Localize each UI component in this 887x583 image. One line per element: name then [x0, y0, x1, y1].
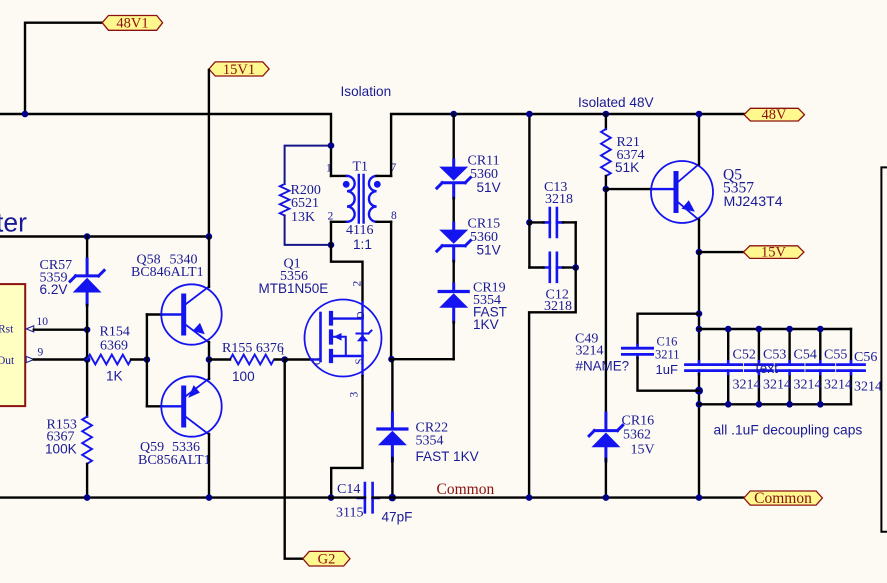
text Isolation — [341, 84, 392, 99]
node bus at CR11 — [450, 111, 457, 118]
zener CR11 — [437, 160, 471, 198]
resistor R154 — [87, 355, 147, 365]
capacitor C12 — [529, 253, 575, 282]
text CR16 labels — [622, 414, 655, 458]
wire CR chain vertical — [453, 114, 455, 162]
text R200 labels — [291, 183, 321, 225]
svg-text:6521: 6521 — [291, 196, 319, 211]
node CR22 at common — [389, 494, 397, 502]
text R153 labels — [45, 418, 77, 457]
svg-text:C14: C14 — [337, 482, 360, 497]
transistor Q59 — [147, 360, 222, 498]
svg-text:R154: R154 — [100, 325, 130, 340]
node C52 bottom — [725, 401, 732, 408]
pin Rst arrow — [26, 326, 34, 332]
MOSFET Q1 — [305, 300, 382, 377]
svg-text:C56: C56 — [854, 350, 877, 365]
wire 15V port stub — [699, 251, 744, 253]
node C49 top junction — [696, 310, 703, 317]
node Q5 emitter 15V junction — [696, 249, 703, 256]
wire C12 to common with jog — [529, 268, 576, 498]
svg-text:9: 9 — [38, 347, 44, 359]
port 48V1 — [102, 16, 162, 32]
svg-text:51V: 51V — [477, 180, 501, 195]
node R200 top junction — [328, 142, 335, 149]
svg-text:48V: 48V — [762, 107, 788, 123]
transistor Q5 — [651, 114, 713, 252]
text CR22 labels — [416, 421, 479, 465]
svg-text:G: G — [313, 357, 324, 365]
svg-text:3211: 3211 — [655, 348, 680, 362]
capacitor C53 — [745, 329, 772, 404]
wire pin10 — [34, 329, 87, 331]
svg-text:15V: 15V — [631, 443, 655, 458]
svg-text:Rst: Rst — [0, 324, 14, 336]
node bus at R21 — [603, 111, 610, 118]
text C52 labels — [733, 347, 761, 392]
text C16 labels — [655, 334, 680, 377]
node C55 bottom — [817, 401, 824, 408]
svg-text:Isolated 48V: Isolated 48V — [578, 95, 654, 110]
node C12 right junction — [572, 264, 579, 271]
node decoupling top rail junction — [696, 326, 703, 333]
svg-text:4116: 4116 — [346, 223, 373, 238]
svg-text:100K: 100K — [45, 442, 77, 457]
text C49 labels — [575, 332, 629, 374]
node CR16 at common — [603, 494, 610, 501]
pin Out arrow — [26, 356, 34, 362]
svg-text:MJ243T4: MJ243T4 — [724, 194, 783, 210]
diode CR19 — [439, 284, 468, 322]
node pin8 CR22 junction — [388, 356, 395, 363]
node emitter junction R155 — [206, 356, 213, 363]
node R21 bottom junction — [603, 186, 610, 193]
wire gate — [285, 358, 312, 360]
wire 15V1 drop — [208, 70, 210, 237]
svg-text:3214: 3214 — [794, 377, 822, 392]
text Q58 labels — [131, 252, 204, 280]
node C53 top — [756, 326, 763, 333]
node 48V1 junction — [22, 111, 29, 118]
svg-text:1:1: 1:1 — [353, 237, 372, 252]
pin Rst label — [0, 324, 14, 336]
svg-text:1: 1 — [280, 347, 285, 357]
node C54 top — [786, 326, 793, 333]
wire C13 to C12 right — [575, 222, 577, 267]
text R154 labels — [100, 325, 130, 384]
svg-text:3214: 3214 — [576, 344, 604, 359]
capacitor C54 — [776, 329, 803, 404]
svg-text:6369: 6369 — [100, 339, 128, 354]
text C56 labels — [854, 350, 882, 394]
svg-text:Common: Common — [437, 481, 495, 498]
svg-text:BC856ALT1: BC856ALT1 — [138, 453, 211, 468]
svg-text:5362: 5362 — [623, 427, 651, 442]
svg-text:G2: G2 — [318, 551, 336, 567]
svg-text:D: D — [356, 311, 367, 319]
capacitor C49 — [622, 314, 699, 391]
svg-text:S: S — [355, 359, 366, 365]
node C53 bottom — [756, 401, 763, 408]
wire CR15 to CR19 — [453, 261, 455, 286]
svg-text:3218: 3218 — [545, 192, 573, 207]
text C14 labels — [336, 482, 412, 524]
node bus at Q5 collector — [696, 111, 703, 118]
capacitor C56 — [838, 329, 865, 404]
resistor R153 — [82, 417, 92, 464]
pin 2 number Q1 — [352, 281, 364, 287]
pin 2 number T1 — [328, 211, 334, 223]
wire secondary bottom link — [391, 358, 454, 360]
svg-text:15V1: 15V1 — [223, 62, 255, 78]
node decoupling bottom rail junction — [696, 401, 703, 408]
resistor R200 with loop wires — [280, 146, 331, 245]
text T1 labels — [346, 160, 373, 252]
svg-text:5354: 5354 — [416, 434, 444, 449]
port 48V — [744, 107, 804, 123]
text Q5 labels — [723, 167, 783, 211]
wire bus2 15V1 rail — [0, 235, 209, 237]
wire CR57 chain upper — [86, 237, 88, 260]
node C54 bottom — [786, 401, 793, 408]
svg-text:Isolation: Isolation — [341, 84, 392, 99]
wire CR57 to R153 — [86, 305, 88, 417]
svg-text:R155 6376: R155 6376 — [222, 341, 284, 356]
node C49 bottom junction — [695, 387, 703, 395]
text CR15 labels — [468, 217, 501, 258]
wire decoupling top rail — [699, 328, 851, 330]
capacitor C16 — [686, 361, 713, 374]
svg-text:C55: C55 — [824, 347, 847, 362]
port Common — [744, 490, 823, 507]
sheet entry border right — [881, 167, 887, 531]
wire R21 junction down to CR16 — [605, 189, 607, 415]
text Q1 G D S pin names — [313, 311, 368, 365]
wire R153 to common — [86, 464, 88, 498]
wire pin7 to bus — [391, 114, 744, 176]
text CR57 labels — [40, 258, 73, 297]
svg-text:51K: 51K — [615, 160, 639, 175]
svg-text:Text: Text — [753, 361, 778, 376]
capacitor C14 — [358, 483, 379, 512]
zener CR16 — [589, 413, 623, 498]
svg-text:Common: Common — [754, 490, 812, 507]
text C12 labels — [544, 287, 572, 314]
svg-text:3214: 3214 — [854, 379, 882, 394]
svg-text:3214: 3214 — [824, 377, 852, 392]
svg-text:C16: C16 — [657, 334, 678, 348]
node pin10 junction — [84, 326, 91, 333]
node common R153 — [84, 494, 91, 501]
svg-text:1K: 1K — [106, 368, 123, 383]
node common Q59 — [206, 494, 213, 501]
wire bus1 primary 48V1 rail — [0, 114, 331, 176]
diode CR22 — [378, 359, 407, 497]
svg-text:1KV: 1KV — [473, 317, 499, 332]
svg-text:#NAME?: #NAME? — [576, 358, 630, 373]
pin 7 number T1 — [391, 162, 397, 174]
wire pin2 to Q1 drain — [331, 222, 363, 302]
text Q1 labels — [259, 257, 329, 297]
zener CR57 — [70, 259, 104, 305]
pin Out label — [0, 355, 15, 367]
capacitor C13 — [529, 208, 575, 237]
wire 15V vertical to C16 — [698, 252, 700, 361]
node C55 top — [817, 326, 824, 333]
wire common rail — [0, 496, 744, 498]
node C52 top — [725, 326, 732, 333]
svg-text:47pF: 47pF — [382, 509, 413, 524]
wire 48V1 stub — [25, 23, 102, 114]
svg-text:48V1: 48V1 — [116, 16, 148, 32]
svg-text:6.2V: 6.2V — [40, 282, 68, 297]
transformer T1 — [331, 175, 391, 223]
wire C16 bottom to common — [698, 374, 700, 497]
node bus at C13 branch — [526, 111, 533, 118]
zener CR15 — [437, 223, 471, 261]
node R200 bottom junction — [328, 242, 335, 249]
svg-text:T1: T1 — [353, 160, 369, 175]
text Text annotation — [753, 361, 778, 376]
pin 8 number T1 — [391, 210, 397, 222]
node pin9 junction — [84, 356, 91, 363]
text C54 labels — [794, 347, 822, 392]
svg-text:3214: 3214 — [763, 377, 791, 392]
wire pin9 — [34, 358, 87, 360]
svg-text:13K: 13K — [291, 210, 315, 225]
svg-text:C54: C54 — [794, 347, 817, 362]
svg-text:3115: 3115 — [336, 505, 363, 520]
svg-text:BC846ALT1: BC846ALT1 — [131, 265, 204, 280]
node R154 right junction — [144, 356, 151, 363]
text Common net label — [437, 481, 495, 498]
svg-text:all .1uF decoupling caps: all .1uF decoupling caps — [714, 423, 863, 438]
node Q1 source at common — [328, 494, 335, 501]
text CR19 labels — [473, 281, 507, 333]
wire C13 to C12 left — [528, 222, 530, 267]
pin 3 number Q1 — [349, 392, 361, 398]
text R21 labels — [615, 135, 645, 175]
text CR11 labels — [468, 153, 501, 195]
svg-text:10: 10 — [37, 316, 49, 328]
resistor R21 — [601, 114, 611, 189]
node C13 left junction — [526, 219, 533, 226]
wire G2 drop — [285, 360, 303, 559]
wire decoupling bottom rail — [699, 403, 851, 405]
port G2 — [303, 551, 350, 567]
text C53 labels — [763, 347, 791, 392]
pin 1 number T1 — [326, 163, 332, 175]
text R155 labels — [222, 341, 285, 384]
svg-text:8: 8 — [391, 210, 397, 222]
wire Q5 base — [606, 188, 652, 190]
text decoupling note — [714, 423, 863, 438]
node R155 right junction gate node — [281, 356, 288, 363]
svg-text:1uF: 1uF — [656, 362, 678, 377]
node bus2 junction at CR57 — [84, 233, 91, 240]
wire CR11 to CR15 — [453, 198, 455, 225]
text C13 labels — [544, 180, 573, 207]
text title fragment "ter" — [0, 208, 27, 238]
svg-text:ter: ter — [0, 208, 27, 238]
svg-text:CR11: CR11 — [468, 153, 500, 168]
node bus2 junction at Q58 collector — [206, 233, 213, 240]
wire Q1 source to common — [331, 376, 362, 498]
transistor Q58 — [147, 237, 222, 360]
svg-text:1: 1 — [326, 163, 332, 175]
port 15V — [744, 245, 804, 261]
pin 9 number — [38, 347, 44, 359]
svg-text:15V: 15V — [761, 245, 787, 261]
wire CR19 to bottom link — [453, 322, 455, 359]
resistor R155 — [209, 355, 285, 365]
text Q59 labels — [138, 440, 211, 468]
wire pin8 down — [390, 222, 392, 359]
svg-text:MTB1N50E: MTB1N50E — [259, 281, 329, 296]
svg-text:100: 100 — [232, 369, 255, 384]
IC U? yellow box body — [0, 284, 25, 406]
svg-text:FAST 1KV: FAST 1KV — [416, 449, 479, 464]
svg-text:3214: 3214 — [733, 377, 761, 392]
node C12 branch at common — [526, 494, 533, 501]
capacitor C55 — [807, 329, 834, 404]
text Isolated 48V — [578, 95, 654, 110]
wire base vertical Q58 Q59 — [146, 315, 148, 407]
port 15V1 — [209, 62, 269, 78]
node 15V branch at common — [696, 494, 703, 501]
svg-text:3: 3 — [349, 392, 361, 398]
pin 10 number — [37, 316, 49, 328]
svg-text:51V: 51V — [477, 243, 501, 258]
svg-text:Out: Out — [0, 355, 15, 367]
svg-text:2: 2 — [352, 281, 364, 287]
text C55 labels — [824, 347, 852, 392]
capacitor C52 — [715, 329, 742, 404]
wire C13 branch vertical — [528, 114, 530, 222]
